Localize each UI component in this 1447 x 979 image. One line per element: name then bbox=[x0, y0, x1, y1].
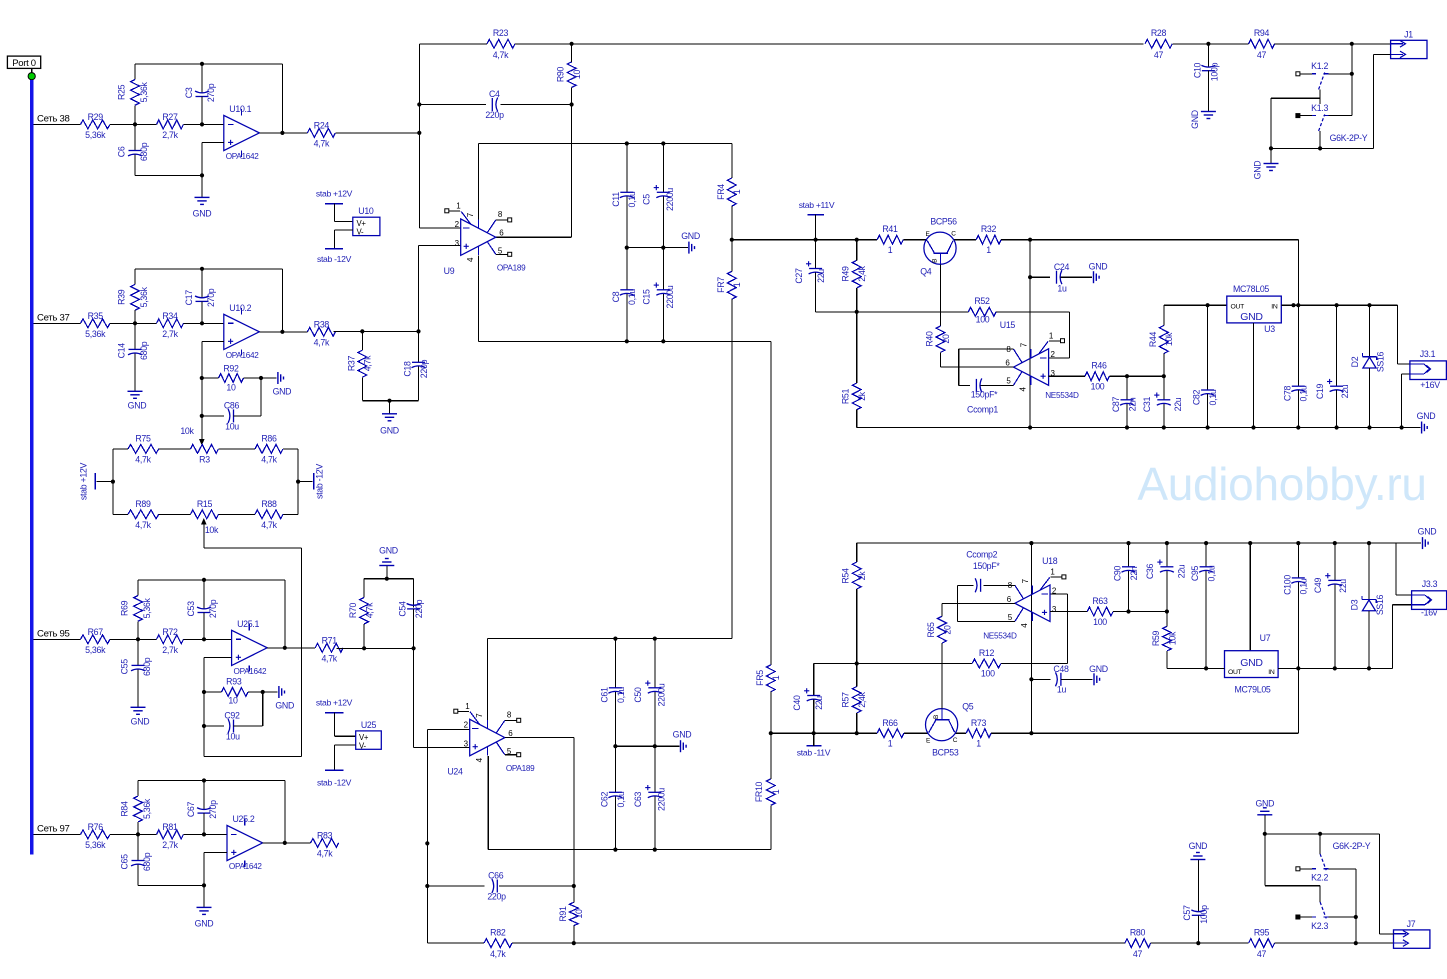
ground mid lower bank bbox=[673, 730, 692, 753]
svg-text:270p: 270p bbox=[206, 288, 216, 307]
resistor R49 bbox=[841, 240, 867, 312]
svg-text:R95: R95 bbox=[1254, 928, 1270, 938]
svg-text:100: 100 bbox=[1093, 617, 1107, 627]
svg-text:Port 0: Port 0 bbox=[12, 58, 36, 69]
svg-text:R65: R65 bbox=[926, 622, 936, 638]
svg-text:SS16: SS16 bbox=[1376, 351, 1386, 372]
ground bbox=[193, 175, 212, 218]
svg-text:U18: U18 bbox=[1042, 556, 1058, 566]
wire U9 pin7 to positive cap rail bbox=[478, 141, 731, 219]
svg-text:GND: GND bbox=[1189, 841, 1208, 851]
svg-text:4,7k: 4,7k bbox=[261, 520, 277, 530]
capacitor C6 bbox=[117, 124, 150, 175]
svg-text:C50: C50 bbox=[633, 687, 643, 703]
capacitor C63 bbox=[633, 746, 666, 849]
svg-text:0,1u: 0,1u bbox=[1208, 389, 1218, 405]
svg-text:1u: 1u bbox=[1057, 685, 1067, 695]
relay label G6K-2P-Y lower bbox=[1333, 841, 1371, 851]
svg-text:R24: R24 bbox=[314, 120, 330, 130]
svg-text:R63: R63 bbox=[1092, 596, 1108, 606]
svg-text:R84: R84 bbox=[120, 801, 130, 817]
svg-text:5,36k: 5,36k bbox=[139, 286, 149, 307]
svg-text:MC79L05: MC79L05 bbox=[1234, 684, 1270, 694]
svg-text:D3: D3 bbox=[1349, 599, 1359, 610]
svg-text:22u: 22u bbox=[816, 269, 826, 283]
svg-text:C31: C31 bbox=[1142, 396, 1152, 412]
svg-text:680p: 680p bbox=[142, 657, 152, 676]
resistor R29 bbox=[81, 112, 111, 140]
ground below R37 C18 bbox=[380, 414, 399, 436]
capacitor C11 bbox=[611, 144, 637, 248]
svg-text:C5: C5 bbox=[642, 194, 652, 205]
capacitor Ccomp1 150pF bbox=[959, 378, 1014, 414]
wire U10.2 plus input to R92 C86 network bbox=[200, 341, 224, 441]
svg-text:R81: R81 bbox=[162, 822, 178, 832]
svg-text:GND: GND bbox=[1240, 657, 1263, 669]
capacitor C5 bbox=[642, 144, 675, 248]
svg-text:C65: C65 bbox=[120, 854, 130, 870]
svg-text:stab -12V: stab -12V bbox=[315, 464, 325, 499]
capacitor Ccomp2 150pF bbox=[957, 550, 1000, 622]
svg-text:R28: R28 bbox=[1151, 28, 1167, 38]
ground right of R93 bbox=[263, 686, 294, 711]
svg-text:4,7k: 4,7k bbox=[365, 602, 375, 618]
wire R23 to R28 top net bbox=[515, 42, 1144, 46]
svg-text:220p: 220p bbox=[414, 599, 424, 618]
svg-text:220p: 220p bbox=[419, 359, 429, 378]
svg-text:OPA189: OPA189 bbox=[497, 264, 526, 273]
capacitor C78 bbox=[1282, 385, 1308, 427]
svg-text:R83: R83 bbox=[317, 830, 333, 840]
wiper arrow onto R3 bbox=[180, 426, 204, 446]
svg-text:SS16: SS16 bbox=[1375, 594, 1385, 615]
power symbol U25 V+ V- bbox=[316, 698, 381, 788]
resistor R76 bbox=[81, 822, 111, 850]
wire bottom long net R82 row bbox=[427, 941, 1125, 945]
bus Port 0 vertical blue bbox=[30, 80, 33, 855]
svg-text:5,36k: 5,36k bbox=[142, 798, 152, 819]
svg-text:C8: C8 bbox=[611, 291, 621, 302]
svg-text:C11: C11 bbox=[611, 192, 621, 207]
svg-text:B: B bbox=[931, 259, 938, 263]
svg-text:0,1u: 0,1u bbox=[1207, 565, 1217, 581]
resistor R38 output bbox=[259, 319, 335, 347]
svg-text:V-: V- bbox=[357, 228, 364, 237]
svg-text:1u: 1u bbox=[1057, 284, 1067, 294]
svg-text:R34: R34 bbox=[162, 311, 178, 321]
svg-text:R32: R32 bbox=[981, 224, 997, 234]
op-amp U10.2 OPA1642 bbox=[224, 303, 260, 360]
wire U24 pin2 vertical bbox=[425, 730, 470, 944]
svg-text:Сеть 37: Сеть 37 bbox=[37, 313, 70, 324]
capacitor C54 bbox=[398, 579, 424, 649]
wire U7 OUT row bbox=[1167, 666, 1225, 670]
svg-text:1: 1 bbox=[771, 675, 781, 680]
svg-text:IN: IN bbox=[1271, 303, 1278, 310]
capacitor C49 bbox=[1313, 543, 1348, 668]
wire U3 OUT row bbox=[1164, 303, 1227, 307]
svg-text:R12: R12 bbox=[979, 648, 995, 658]
wire C4 row bbox=[419, 102, 573, 106]
resistor R72 bbox=[138, 627, 232, 655]
svg-text:5,36k: 5,36k bbox=[85, 840, 106, 850]
resistor R59 bbox=[1151, 612, 1177, 669]
svg-text:R49: R49 bbox=[841, 266, 851, 282]
svg-text:C40: C40 bbox=[792, 695, 802, 711]
svg-text:U25.1: U25.1 bbox=[237, 619, 259, 629]
capacitor C86 bbox=[202, 378, 261, 432]
svg-text:R94: R94 bbox=[1254, 28, 1270, 38]
trimmer left rail stab +12V bbox=[79, 449, 116, 514]
capacitor C92 bbox=[204, 692, 263, 742]
svg-text:R93: R93 bbox=[226, 677, 242, 687]
resistor R44 bbox=[1148, 305, 1174, 376]
svg-text:GND: GND bbox=[1089, 664, 1108, 674]
svg-text:C6: C6 bbox=[117, 146, 127, 157]
ground below relay K1 bbox=[1253, 148, 1279, 179]
R15 wiper arrow and wire to U25.1 plus network bbox=[201, 518, 301, 756]
relay contact K1.2 bbox=[1296, 61, 1354, 89]
svg-text:R59: R59 bbox=[1151, 630, 1161, 646]
svg-text:R54: R54 bbox=[841, 568, 851, 584]
resistor R94 bbox=[1249, 28, 1275, 60]
svg-text:2k: 2k bbox=[857, 571, 867, 581]
wire U9 pin3 input bbox=[419, 246, 461, 332]
svg-text:100p: 100p bbox=[1209, 62, 1219, 81]
resistor R34 bbox=[135, 311, 224, 339]
capacitor C36 bbox=[1145, 543, 1186, 611]
resistor R65 bbox=[926, 603, 952, 643]
wire U15 pin3 to R46 bbox=[1049, 375, 1086, 377]
svg-text:0,1u: 0,1u bbox=[1299, 385, 1309, 401]
svg-text:OUT: OUT bbox=[1228, 669, 1242, 676]
wire net input from bus to R67 bbox=[33, 638, 80, 640]
power stab -11V bbox=[797, 733, 831, 757]
svg-text:2k: 2k bbox=[857, 391, 867, 401]
svg-text:GND: GND bbox=[681, 231, 700, 241]
svg-text:C19: C19 bbox=[1315, 383, 1325, 399]
svg-text:100: 100 bbox=[976, 315, 990, 325]
svg-text:C57: C57 bbox=[1182, 905, 1192, 921]
svg-text:2,7k: 2,7k bbox=[162, 840, 178, 850]
svg-text:10: 10 bbox=[226, 383, 236, 393]
wire lower bank mid rail to ground bbox=[613, 744, 679, 748]
svg-text:R23: R23 bbox=[493, 28, 509, 38]
svg-text:R57: R57 bbox=[841, 692, 851, 708]
svg-text:U10: U10 bbox=[358, 206, 374, 216]
trimmer row 2 wires bbox=[113, 513, 298, 515]
wire feedback top bbox=[135, 62, 285, 135]
resistor R25 feedback bbox=[117, 64, 150, 125]
svg-text:Сеть 95: Сеть 95 bbox=[37, 629, 70, 640]
ground below C10 bbox=[1190, 110, 1216, 129]
svg-text:D2: D2 bbox=[1350, 356, 1360, 367]
wire R12 row bbox=[814, 594, 1068, 666]
port node green dot bbox=[28, 73, 35, 80]
wire U18 pin6 to R65 bbox=[942, 602, 1015, 604]
wire net input from bus to R29 bbox=[33, 123, 80, 125]
wire K1.3 armature to bottom link bbox=[1318, 131, 1322, 150]
svg-text:R29: R29 bbox=[88, 112, 104, 122]
resistor R67 bbox=[81, 627, 111, 655]
resistor R40 bbox=[925, 326, 951, 367]
trimmer right rail stab -12V bbox=[296, 449, 325, 514]
wire net input from bus to R35 bbox=[33, 322, 80, 324]
op-amp U25.2 OPA1642 bbox=[227, 814, 263, 871]
wire U24 pin4 to lower bank bottom rail bbox=[488, 756, 771, 852]
resistor R71 output bbox=[267, 635, 343, 663]
svg-text:C82: C82 bbox=[1192, 389, 1202, 405]
capacitor C67 bbox=[186, 781, 218, 837]
svg-text:4,7k: 4,7k bbox=[490, 949, 506, 959]
svg-text:J7: J7 bbox=[1407, 919, 1416, 929]
svg-text:U25: U25 bbox=[361, 720, 377, 730]
svg-text:U3: U3 bbox=[1264, 324, 1275, 334]
svg-text:47: 47 bbox=[1257, 50, 1267, 60]
wire K1.2 armature link bbox=[1271, 89, 1320, 148]
svg-text:22u: 22u bbox=[1173, 397, 1183, 411]
svg-text:B: B bbox=[933, 715, 940, 719]
svg-text:1: 1 bbox=[771, 789, 781, 794]
svg-text:stab -12V: stab -12V bbox=[317, 254, 352, 264]
svg-text:U10.2: U10.2 bbox=[229, 303, 251, 313]
svg-text:C100: C100 bbox=[1282, 575, 1292, 595]
wire U15 pin8 to Ccomp1 bbox=[959, 349, 1014, 385]
svg-text:GND: GND bbox=[1190, 110, 1200, 129]
svg-text:Q4: Q4 bbox=[920, 267, 932, 277]
wire feedback top bbox=[138, 578, 287, 650]
svg-text:C67: C67 bbox=[186, 801, 196, 817]
svg-text:Ccomp2: Ccomp2 bbox=[966, 550, 997, 560]
svg-text:Ccomp1: Ccomp1 bbox=[967, 405, 998, 415]
resistor R23 bbox=[487, 28, 515, 60]
resistor R63 bbox=[1087, 596, 1113, 627]
wire U18 pin8 to Ccomp2 bbox=[984, 584, 1015, 586]
regulator U7 MC79L05 bbox=[1225, 633, 1279, 694]
svg-text:OPA189: OPA189 bbox=[506, 764, 535, 773]
svg-text:2,4k: 2,4k bbox=[857, 265, 867, 281]
svg-text:GND: GND bbox=[380, 426, 399, 436]
svg-text:J3.3: J3.3 bbox=[1422, 579, 1438, 589]
wire U18 pin5 row bbox=[957, 620, 1015, 622]
svg-text:C90: C90 bbox=[1113, 565, 1123, 581]
svg-text:R41: R41 bbox=[882, 224, 898, 234]
port label Port 0 bbox=[7, 56, 40, 73]
svg-text:Audiohobby.ru: Audiohobby.ru bbox=[1137, 458, 1426, 510]
svg-text:680p: 680p bbox=[142, 852, 152, 871]
svg-text:2200u: 2200u bbox=[665, 285, 675, 308]
svg-text:4,7k: 4,7k bbox=[261, 455, 277, 465]
svg-text:K2.2: K2.2 bbox=[1311, 873, 1328, 883]
svg-text:C36: C36 bbox=[1145, 563, 1155, 579]
svg-text:4,7k: 4,7k bbox=[321, 653, 337, 663]
wire U15 pin6 to R40 bbox=[941, 366, 1014, 368]
svg-text:2,4k: 2,4k bbox=[857, 691, 867, 707]
wire Q4 base to R40 bbox=[939, 264, 941, 326]
capacitor C62 bbox=[599, 746, 625, 849]
wire U9 pin4 to lower cap rail bbox=[478, 256, 770, 344]
ground above relay K2 bbox=[1255, 799, 1274, 834]
wire R80 to R95 bbox=[1151, 941, 1249, 945]
svg-text:4,7k: 4,7k bbox=[493, 50, 509, 60]
resistor R80 bbox=[1125, 928, 1151, 960]
svg-text:4,7k: 4,7k bbox=[363, 355, 373, 371]
svg-text:OPA1642: OPA1642 bbox=[226, 351, 260, 360]
svg-text:GND: GND bbox=[1418, 527, 1437, 537]
capacitor C24 bbox=[1030, 262, 1092, 294]
capacitor C57 bbox=[1182, 860, 1209, 943]
svg-text:IN: IN bbox=[1268, 669, 1275, 676]
svg-text:4,7k: 4,7k bbox=[135, 455, 151, 465]
svg-text:2200u: 2200u bbox=[656, 788, 666, 811]
capacitor C48 bbox=[1031, 664, 1092, 695]
relay contact K2.2 bbox=[1296, 834, 1356, 883]
svg-text:R69: R69 bbox=[120, 600, 130, 616]
svg-text:GND: GND bbox=[673, 730, 692, 740]
svg-text:FR10: FR10 bbox=[754, 781, 764, 802]
svg-text:10u: 10u bbox=[226, 732, 240, 742]
svg-text:U24: U24 bbox=[447, 766, 463, 776]
svg-text:270p: 270p bbox=[208, 800, 218, 819]
resistor R90 bbox=[556, 44, 582, 105]
resistor R91 bbox=[558, 886, 584, 943]
svg-text:+16V: +16V bbox=[1420, 380, 1440, 390]
svg-text:C18: C18 bbox=[403, 361, 413, 377]
resistor R32 bbox=[976, 224, 1001, 255]
svg-text:2,7k: 2,7k bbox=[162, 645, 178, 655]
op-amp U18 NE5534D bbox=[983, 556, 1066, 641]
svg-text:K2.3: K2.3 bbox=[1311, 921, 1328, 931]
svg-text:R90: R90 bbox=[556, 66, 566, 82]
resistor FR5 bbox=[755, 341, 781, 733]
wire R46 to C87 C31 node bbox=[1109, 374, 1166, 378]
resistor R84 feedback bbox=[120, 781, 153, 835]
svg-text:OPA1642: OPA1642 bbox=[226, 152, 260, 161]
watermark Audiohobby.ru bbox=[1137, 458, 1426, 510]
svg-text:R39: R39 bbox=[117, 289, 127, 305]
svg-text:22u: 22u bbox=[1340, 384, 1350, 398]
resistor R83 output bbox=[263, 830, 339, 858]
wire U9 output up to C4 row bbox=[496, 105, 572, 238]
wire upper PSU ground rail bbox=[857, 425, 1421, 429]
svg-text:4,7k: 4,7k bbox=[135, 520, 151, 530]
svg-text:BCP53: BCP53 bbox=[932, 748, 959, 758]
svg-text:270p: 270p bbox=[208, 599, 218, 618]
capacitor C31 bbox=[1142, 376, 1183, 427]
svg-text:1: 1 bbox=[986, 245, 991, 255]
svg-text:5,36k: 5,36k bbox=[85, 645, 106, 655]
svg-text:GND: GND bbox=[1240, 311, 1263, 323]
svg-text:R76: R76 bbox=[88, 822, 104, 832]
svg-text:10k: 10k bbox=[1167, 631, 1177, 645]
capacitor C53 bbox=[186, 580, 218, 642]
wire R95 to J7 bbox=[1275, 941, 1394, 945]
connector J7 bbox=[1394, 919, 1430, 948]
wire U24 pin7 to lower bank top rail bbox=[488, 637, 732, 721]
svg-text:GND: GND bbox=[1089, 262, 1108, 272]
svg-text:C3: C3 bbox=[184, 87, 194, 98]
svg-text:2,7k: 2,7k bbox=[162, 130, 178, 140]
ground bbox=[195, 885, 214, 928]
wire relay K2 top row bbox=[1263, 832, 1394, 934]
svg-text:R52: R52 bbox=[974, 296, 990, 306]
resistor R24 output bbox=[259, 120, 335, 148]
svg-text:22n: 22n bbox=[1127, 397, 1137, 411]
svg-text:R73: R73 bbox=[971, 718, 987, 728]
svg-text:U9: U9 bbox=[444, 266, 455, 276]
resistor R41 bbox=[877, 224, 903, 255]
svg-text:C24: C24 bbox=[1054, 262, 1070, 272]
op-amp U9 OPA189 bbox=[444, 202, 526, 276]
svg-text:10u: 10u bbox=[225, 422, 239, 432]
resistor R28 bbox=[1145, 28, 1172, 60]
svg-text:C10: C10 bbox=[1192, 62, 1202, 78]
wire U7 GND pin column bbox=[1249, 543, 1251, 651]
ground right end of upper rail bbox=[1417, 411, 1436, 434]
svg-text:C54: C54 bbox=[398, 601, 408, 617]
capacitor C61 bbox=[599, 639, 625, 747]
trimmer row 1 wires bbox=[113, 448, 298, 450]
svg-text:10k: 10k bbox=[205, 525, 219, 535]
svg-text:U15: U15 bbox=[1000, 320, 1016, 330]
capacitor C10 bbox=[1192, 44, 1219, 112]
svg-text:100p: 100p bbox=[1199, 905, 1209, 924]
wire R28 to R94 bbox=[1172, 42, 1248, 46]
svg-text:GND: GND bbox=[128, 400, 147, 410]
wire U18 supply vertical pin7 pin4 bbox=[1029, 541, 1033, 733]
capacitor C8 bbox=[611, 248, 637, 342]
svg-text:C48: C48 bbox=[1053, 664, 1069, 674]
power stab +11V bbox=[799, 200, 835, 240]
resistor R82 bbox=[484, 928, 512, 960]
svg-text:stab +12V: stab +12V bbox=[316, 698, 353, 708]
resistor R86 bbox=[255, 434, 283, 465]
resistor R51 bbox=[841, 312, 867, 428]
svg-text:0,1u: 0,1u bbox=[627, 289, 637, 305]
svg-text:C92: C92 bbox=[224, 711, 240, 721]
wire net input from bus to R76 bbox=[33, 833, 80, 835]
svg-text:R44: R44 bbox=[1148, 331, 1158, 347]
svg-text:10k: 10k bbox=[180, 426, 194, 436]
capacitor C100 bbox=[1282, 575, 1308, 595]
svg-text:680p: 680p bbox=[139, 341, 149, 360]
resistor R52 bbox=[968, 296, 996, 325]
svg-text:G6K-2P-Y: G6K-2P-Y bbox=[1333, 841, 1371, 851]
svg-text:Сеть 97: Сеть 97 bbox=[37, 824, 70, 835]
svg-text:5,36k: 5,36k bbox=[85, 130, 106, 140]
svg-text:GND: GND bbox=[1417, 411, 1436, 421]
svg-text:R40: R40 bbox=[925, 331, 935, 347]
capacitor C3 bbox=[184, 64, 216, 127]
wire J3.1 pins bbox=[1397, 305, 1410, 427]
capacitor C66 bbox=[487, 871, 506, 902]
net label bbox=[37, 313, 70, 324]
svg-text:R67: R67 bbox=[88, 627, 104, 637]
wire R38 output node bbox=[333, 329, 420, 333]
svg-text:GND: GND bbox=[131, 716, 150, 726]
wire rail down to IN row C78 column bbox=[1297, 240, 1299, 387]
svg-text:R80: R80 bbox=[1130, 928, 1146, 938]
svg-text:R51: R51 bbox=[841, 388, 851, 404]
capacitor C15 bbox=[642, 248, 675, 342]
resistor FR4 bbox=[716, 144, 742, 240]
svg-text:10: 10 bbox=[228, 696, 238, 706]
svg-text:4,7k: 4,7k bbox=[314, 138, 330, 148]
wire lower rail right link down to Q5 row bbox=[1297, 668, 1299, 733]
svg-text:R88: R88 bbox=[261, 499, 277, 509]
transistor Q4 BCP56 bbox=[920, 216, 957, 276]
resistor R12 bbox=[972, 648, 1001, 679]
